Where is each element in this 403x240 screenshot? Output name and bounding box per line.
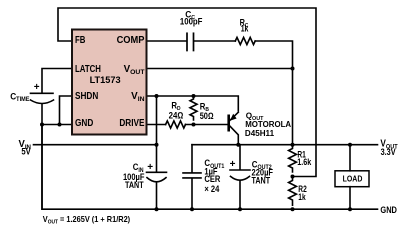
svg-text:LATCH: LATCH bbox=[75, 63, 101, 74]
svg-text:1k: 1k bbox=[241, 24, 249, 34]
svg-text:+: + bbox=[34, 82, 40, 93]
svg-text:DRIVE: DRIVE bbox=[119, 117, 144, 128]
svg-text:1k: 1k bbox=[298, 192, 306, 202]
svg-text:3.3V: 3.3V bbox=[381, 146, 396, 157]
svg-text:SHDN: SHDN bbox=[75, 90, 98, 101]
svg-text:VOUT = 1.265V (1 + R1/R2): VOUT = 1.265V (1 + R1/R2) bbox=[43, 215, 131, 224]
svg-text:LOAD: LOAD bbox=[343, 174, 363, 184]
svg-text:GND: GND bbox=[380, 204, 397, 215]
svg-text:50Ω: 50Ω bbox=[200, 110, 214, 121]
svg-text:GND: GND bbox=[75, 117, 94, 128]
svg-text:5V: 5V bbox=[21, 146, 31, 157]
svg-text:× 24: × 24 bbox=[204, 183, 219, 194]
svg-text:+: + bbox=[147, 162, 153, 173]
svg-text:D45H11: D45H11 bbox=[245, 128, 275, 138]
svg-text:FB: FB bbox=[75, 34, 85, 45]
svg-text:1.6k: 1.6k bbox=[297, 157, 311, 167]
svg-text:TANT: TANT bbox=[252, 176, 271, 186]
svg-text:CTIME: CTIME bbox=[10, 91, 29, 103]
svg-text:TANT: TANT bbox=[125, 180, 144, 190]
svg-text:COMP: COMP bbox=[117, 35, 146, 46]
svg-text:24Ω: 24Ω bbox=[169, 110, 184, 121]
svg-text:LT1573: LT1573 bbox=[90, 74, 121, 85]
svg-text:+: + bbox=[230, 159, 236, 170]
svg-text:100pF: 100pF bbox=[180, 16, 203, 27]
